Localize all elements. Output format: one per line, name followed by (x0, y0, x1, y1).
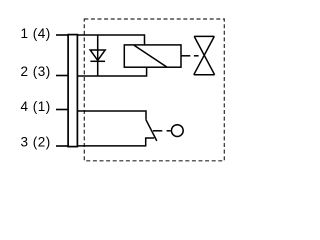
svg-text:2 (3): 2 (3) (21, 64, 51, 79)
svg-text:4 (1): 4 (1) (21, 99, 51, 114)
svg-text:1 (4): 1 (4) (21, 26, 51, 41)
svg-text:3 (2): 3 (2) (21, 135, 51, 150)
